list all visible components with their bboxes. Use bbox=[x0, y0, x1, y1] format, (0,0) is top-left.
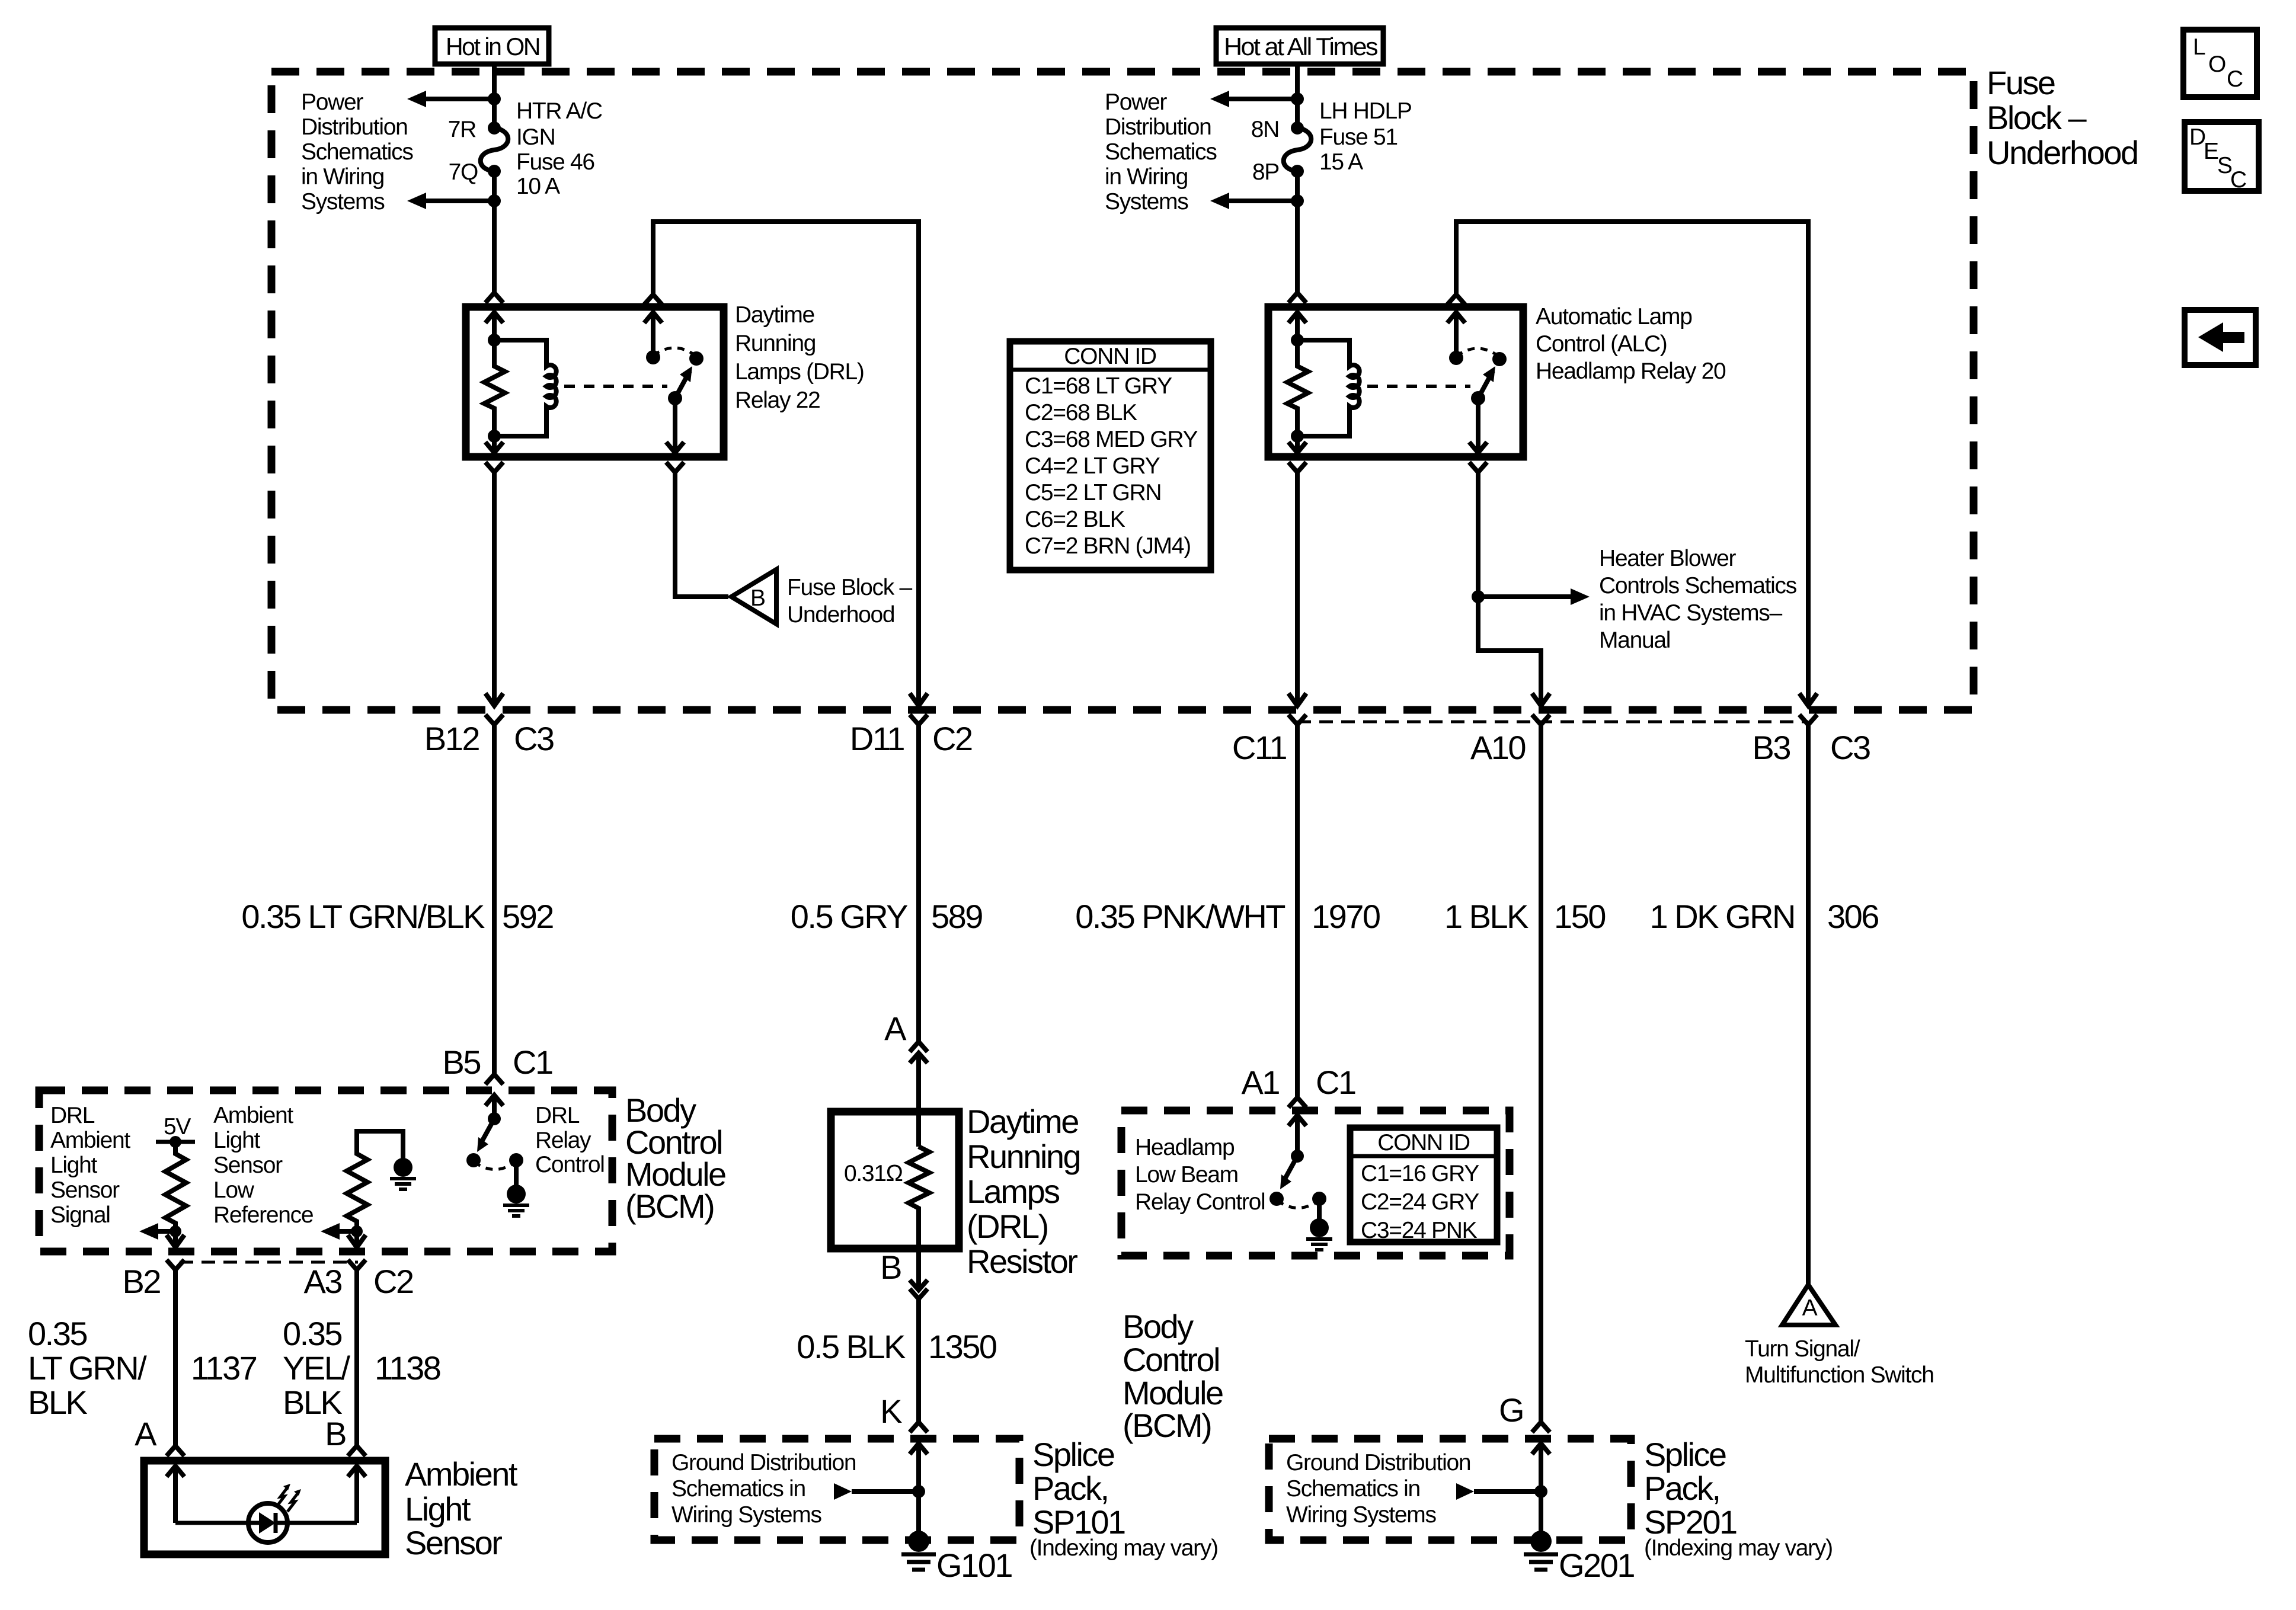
svg-text:Running: Running bbox=[735, 331, 816, 356]
label: Ambient Light Sensor Low Reference bbox=[213, 1103, 313, 1228]
svg-text:in Wiring: in Wiring bbox=[301, 164, 384, 190]
svg-text:in Wiring: in Wiring bbox=[1105, 164, 1188, 190]
svg-text:Manual: Manual bbox=[1599, 628, 1670, 653]
svg-text:7R: 7R bbox=[448, 117, 476, 142]
svg-text:Hot at All Times: Hot at All Times bbox=[1224, 33, 1378, 60]
svg-text:G: G bbox=[1499, 1391, 1523, 1429]
svg-text:C2=68 BLK: C2=68 BLK bbox=[1025, 400, 1137, 425]
svg-text:0.5 GRY: 0.5 GRY bbox=[791, 898, 908, 935]
power label box "Hot in ON" bbox=[435, 28, 549, 64]
connector chevron below relay22 switch pin bbox=[666, 462, 684, 472]
in-line connector at A (double chevron) bbox=[910, 1042, 928, 1052]
svg-text:Control: Control bbox=[1123, 1341, 1219, 1378]
svg-text:1350: 1350 bbox=[928, 1328, 996, 1365]
relay20 coil pin arrow (top) bbox=[1295, 312, 1300, 340]
svg-text:C1=16 GRY: C1=16 GRY bbox=[1361, 1161, 1479, 1186]
label: Fuse Block - Underhood (ref) bbox=[787, 575, 912, 628]
relay20 switch throw contact (NO) bbox=[1492, 352, 1507, 366]
relay22 switch pin arrow (bottom) bbox=[673, 398, 677, 452]
ground G201 bbox=[1530, 1531, 1552, 1552]
label: Headlamp Low Beam Relay Control bbox=[1135, 1135, 1265, 1215]
arrow out of fuse block at B12 bbox=[485, 693, 503, 706]
DRL resistor element bbox=[909, 1147, 929, 1249]
svg-text:LH HDLP: LH HDLP bbox=[1319, 98, 1412, 124]
wire D11 column down to A connector bbox=[916, 725, 921, 1042]
relay20 coil bottom node bbox=[1291, 430, 1304, 443]
wire jog to A10 bbox=[1478, 597, 1541, 706]
connector chevron below boundary at A10 bbox=[1532, 715, 1550, 725]
wire down to relay 22 bbox=[492, 201, 497, 293]
svg-text:A: A bbox=[135, 1415, 157, 1452]
svg-text:Wiring Systems: Wiring Systems bbox=[1286, 1502, 1436, 1528]
relay20 coil top node bbox=[1291, 334, 1304, 347]
svg-text:Pack,: Pack, bbox=[1644, 1470, 1720, 1507]
svg-text:0.35: 0.35 bbox=[28, 1315, 87, 1352]
relay22 coil bottom node bbox=[488, 430, 501, 443]
relay20 switch pivot bbox=[1471, 391, 1485, 405]
LOC box bbox=[2183, 30, 2257, 97]
B ref triangle (Fuse Block - Underhood) bbox=[731, 569, 776, 624]
label: Body Control Module (BCM) left bbox=[625, 1092, 725, 1225]
svg-text:Heater Blower: Heater Blower bbox=[1599, 546, 1737, 571]
ground G101 bbox=[908, 1531, 929, 1552]
svg-text:C4=2 LT GRY: C4=2 LT GRY bbox=[1025, 453, 1160, 479]
text: Heater Blower Controls Schematics in HVAC Systems-Manual bbox=[1599, 546, 1797, 653]
BCM pin arrow at B5 bbox=[492, 1094, 497, 1119]
label: Daytime Running Lamps (DRL) Resistor bbox=[967, 1103, 1080, 1280]
svg-text:0.35: 0.35 bbox=[283, 1315, 341, 1352]
sensor pin arrow B bbox=[354, 1465, 359, 1523]
relay22 coil-switch dashed link bbox=[564, 385, 667, 388]
headlamp low beam contact (right) bbox=[1312, 1192, 1326, 1206]
svg-text:IGN: IGN bbox=[516, 124, 555, 150]
junction node (top right) bbox=[1291, 92, 1304, 105]
svg-text:Underhood: Underhood bbox=[1987, 134, 2138, 171]
label: Ambient Light Sensor bbox=[405, 1455, 518, 1561]
fuse F51 terminal 8P bbox=[1291, 165, 1304, 178]
svg-text:Ground Distribution: Ground Distribution bbox=[671, 1450, 856, 1475]
svg-text:C1: C1 bbox=[513, 1044, 552, 1081]
connector chevron above relay22 switch feed bbox=[644, 295, 662, 305]
label: DRL Ambient Light Sensor Signal bbox=[50, 1103, 130, 1228]
connector chevron below BCM at A3 bbox=[348, 1260, 366, 1270]
svg-text:Sensor: Sensor bbox=[405, 1524, 502, 1561]
DRL relay control switch pivot bbox=[488, 1112, 501, 1125]
wire: arrow from Ground Distribution ref (SP201) bbox=[1474, 1489, 1541, 1494]
svg-text:Block –: Block – bbox=[1987, 99, 2087, 136]
wire A connector into resistor bbox=[916, 1053, 921, 1147]
wire spec: 0.35 YEL/ BLK bbox=[283, 1315, 350, 1421]
label: Fuse Block - Underhood (top right) bbox=[1987, 64, 2138, 171]
svg-text:Body: Body bbox=[1123, 1308, 1194, 1345]
arrow out of fuse block at D11 bbox=[910, 693, 928, 706]
svg-text:A10: A10 bbox=[1470, 729, 1525, 766]
thin dashed connector line C11-B3 bbox=[1297, 721, 1808, 724]
relay22 switch throw contact (NC) bbox=[646, 350, 660, 364]
svg-text:B: B bbox=[880, 1249, 901, 1286]
relay20 coil winding bbox=[1297, 340, 1360, 436]
text: Ground Distribution Schematics in Wiring Systems (SP101) bbox=[671, 1450, 856, 1528]
connector chevron below boundary at C11 bbox=[1288, 715, 1306, 725]
svg-text:B3: B3 bbox=[1753, 729, 1790, 766]
svg-text:C5=2 LT GRN: C5=2 LT GRN bbox=[1025, 480, 1161, 505]
wire spec: 0.35 LT GRN/ BLK bbox=[28, 1315, 147, 1421]
svg-text:C6=2 BLK: C6=2 BLK bbox=[1025, 507, 1125, 532]
relay22 coil pin arrow (top) bbox=[492, 312, 497, 340]
BCM dashed box bbox=[39, 1090, 612, 1251]
svg-text:B2: B2 bbox=[123, 1263, 161, 1300]
connector chevron into relay 20 left pin bbox=[1288, 293, 1306, 303]
svg-text:1 DK GRN: 1 DK GRN bbox=[1650, 898, 1795, 935]
wire relay22 switch common to B ref triangle bbox=[675, 472, 728, 597]
svg-text:Schematics: Schematics bbox=[301, 139, 413, 165]
DRL relay control contact (left) bbox=[466, 1153, 481, 1167]
fuse F46 element bbox=[481, 128, 509, 171]
svg-text:Underhood: Underhood bbox=[787, 602, 894, 628]
svg-text:1 BLK: 1 BLK bbox=[1444, 898, 1528, 935]
svg-text:Fuse Block –: Fuse Block – bbox=[787, 575, 912, 600]
wire: Hot at All Times to fuse 51 bbox=[1295, 64, 1300, 128]
svg-text:10 A: 10 A bbox=[516, 174, 560, 199]
headlamp low beam switch arm bbox=[1284, 1156, 1297, 1181]
connector chevron into sensor at A bbox=[167, 1446, 184, 1456]
label: Splice Pack, SP101 bbox=[1029, 1436, 1218, 1561]
relay22 switch throw contact (NO) bbox=[689, 351, 703, 366]
svg-text:1137: 1137 bbox=[191, 1349, 257, 1387]
wire: arrow from Ground Distribution ref bbox=[852, 1489, 919, 1494]
relay20 switch throw contact (NC) bbox=[1449, 351, 1463, 365]
wire to G201 bbox=[1539, 1491, 1543, 1535]
svg-text:(BCM): (BCM) bbox=[1123, 1407, 1211, 1444]
wire: arrow to Heater Blower ref bbox=[1478, 594, 1572, 599]
svg-text:7Q: 7Q bbox=[449, 159, 478, 185]
svg-text:Relay 22: Relay 22 bbox=[735, 388, 820, 413]
label: HTR A/C IGN Fuse 46 10 A bbox=[516, 98, 602, 199]
svg-text:LT GRN/: LT GRN/ bbox=[28, 1349, 147, 1387]
wire C11 column down to A1/C1 bbox=[1295, 725, 1300, 1097]
svg-text:Relay Control: Relay Control bbox=[1135, 1189, 1265, 1215]
svg-text:Fuse 46: Fuse 46 bbox=[516, 149, 594, 175]
DRL relay control dashed travel arc bbox=[474, 1162, 516, 1170]
label: Splice Pack, SP201 bbox=[1644, 1436, 1833, 1561]
connector chevron below boundary at B3/C3 bbox=[1799, 715, 1817, 725]
BCM2 dashed box bbox=[1121, 1110, 1510, 1256]
ground stem inside BCM bbox=[514, 1160, 519, 1185]
headlamp low beam switch pivot bbox=[1291, 1150, 1304, 1163]
relay22 coil top node bbox=[488, 334, 501, 347]
wire A10 column down to G bbox=[1539, 725, 1543, 1422]
svg-text:15 A: 15 A bbox=[1319, 149, 1363, 175]
ground symbol (DRL relay control) bbox=[507, 1185, 526, 1204]
relay22 switch pin arrow (top) bbox=[651, 312, 655, 357]
svg-text:Schematics: Schematics bbox=[1105, 139, 1217, 165]
relay22 coil winding bbox=[494, 340, 557, 436]
junction node low reference bbox=[351, 1225, 363, 1237]
text: Ground Distribution Schematics in Wiring Systems (SP201) bbox=[1286, 1450, 1470, 1528]
svg-text:C3=68 MED GRY: C3=68 MED GRY bbox=[1025, 427, 1198, 452]
connector chevron into BCM at B5/C1 bbox=[485, 1074, 503, 1084]
junction node heater blower branch bbox=[1472, 590, 1485, 603]
wire B2 to sensor bbox=[173, 1270, 178, 1446]
connector chevron into sensor at B bbox=[348, 1446, 366, 1456]
svg-text:CONN ID: CONN ID bbox=[1377, 1130, 1470, 1156]
svg-text:DRL: DRL bbox=[50, 1103, 95, 1128]
relay20 switch pin arrow (top) bbox=[1454, 312, 1459, 358]
resistor (low reference) with ground hook bbox=[347, 1131, 403, 1231]
SP101 junction node bbox=[912, 1485, 925, 1498]
text: Power Distribution Schematics in Wiring Systems (right) bbox=[1105, 89, 1217, 215]
svg-text:Control: Control bbox=[535, 1152, 605, 1177]
svg-text:Headlamp Relay 20: Headlamp Relay 20 bbox=[1536, 359, 1726, 384]
svg-text:E: E bbox=[2204, 139, 2218, 164]
svg-text:C1=68 LT GRY: C1=68 LT GRY bbox=[1025, 373, 1172, 399]
svg-text:Daytime: Daytime bbox=[735, 302, 814, 328]
svg-text:G101: G101 bbox=[936, 1547, 1012, 1584]
svg-text:Ambient: Ambient bbox=[213, 1103, 293, 1128]
svg-text:C11: C11 bbox=[1232, 729, 1286, 766]
svg-text:DRL: DRL bbox=[535, 1103, 580, 1128]
svg-text:C2: C2 bbox=[932, 720, 972, 757]
wire relay20 switch feed from B3 branch bbox=[1456, 222, 1808, 706]
svg-text:8N: 8N bbox=[1251, 117, 1279, 142]
fuse F46 terminal 7Q bbox=[488, 165, 501, 178]
relay22 switch pivot bbox=[668, 391, 682, 405]
wire below fuse 51 bbox=[1295, 171, 1300, 201]
relay22 switch arm bbox=[675, 371, 690, 398]
svg-text:Controls Schematics: Controls Schematics bbox=[1599, 573, 1797, 598]
svg-text:(Indexing may vary): (Indexing may vary) bbox=[1029, 1535, 1218, 1561]
relay20 switch arm bbox=[1478, 371, 1493, 398]
wire below fuse 46 bbox=[492, 171, 497, 201]
svg-text:Light: Light bbox=[213, 1128, 261, 1153]
svg-text:D11: D11 bbox=[850, 720, 904, 757]
SP201 dashed box bbox=[1269, 1439, 1631, 1540]
svg-text:Module: Module bbox=[1123, 1374, 1223, 1411]
svg-text:Sensor: Sensor bbox=[50, 1177, 120, 1203]
label: LH HDLP Fuse 51 15 A bbox=[1319, 98, 1412, 175]
svg-text:5V: 5V bbox=[164, 1114, 191, 1140]
svg-text:C: C bbox=[2227, 66, 2243, 92]
svg-text:150: 150 bbox=[1554, 898, 1605, 935]
wire relay22 coil to B12 crossing bbox=[492, 472, 497, 706]
svg-text:Sensor: Sensor bbox=[213, 1153, 283, 1178]
svg-text:YEL/: YEL/ bbox=[283, 1349, 350, 1387]
connector chevron into SP101 at K bbox=[910, 1422, 928, 1432]
relay22 resistor bbox=[484, 340, 505, 436]
svg-text:Lamps (DRL): Lamps (DRL) bbox=[735, 359, 864, 385]
CONN ID table 2 bbox=[1350, 1128, 1497, 1243]
DRL relay control switch arm bbox=[481, 1119, 494, 1144]
svg-text:Reference: Reference bbox=[213, 1202, 313, 1228]
connector chevron below relay22 coil pin bbox=[485, 462, 503, 472]
connector chevron below relay20 coil pin bbox=[1288, 462, 1306, 472]
DRL relay control contact (right) bbox=[509, 1153, 523, 1167]
ground symbol (headlamp low beam) bbox=[1310, 1218, 1329, 1237]
svg-text:K: K bbox=[880, 1393, 902, 1430]
svg-text:Power: Power bbox=[1105, 89, 1167, 115]
wire relay20 coil to C11 crossing bbox=[1295, 472, 1300, 706]
wire: arrow to Power Distribution ref (upper right) bbox=[1228, 97, 1297, 101]
svg-text:0.31Ω: 0.31Ω bbox=[844, 1161, 903, 1186]
wire: arrow to Power Distribution ref (upper) bbox=[425, 97, 494, 101]
relay20 switch pin arrow (bottom) bbox=[1476, 398, 1480, 452]
svg-text:O: O bbox=[2208, 52, 2225, 77]
A ref triangle (turn signal) bbox=[1782, 1285, 1835, 1325]
svg-text:Turn Signal/: Turn Signal/ bbox=[1745, 1336, 1860, 1362]
SP201 junction node bbox=[1534, 1485, 1547, 1498]
svg-text:Daytime: Daytime bbox=[967, 1103, 1078, 1140]
svg-text:BLK: BLK bbox=[28, 1384, 87, 1421]
svg-text:Ground Distribution: Ground Distribution bbox=[1286, 1450, 1470, 1475]
svg-text:C7=2 BRN (JM4): C7=2 BRN (JM4) bbox=[1025, 533, 1191, 559]
DRL resistor box bbox=[831, 1112, 959, 1249]
svg-text:B5: B5 bbox=[443, 1044, 481, 1081]
svg-text:Automatic Lamp: Automatic Lamp bbox=[1536, 304, 1692, 329]
wire to G101 bbox=[916, 1491, 921, 1535]
ground stem inside BCM2 bbox=[1317, 1199, 1322, 1219]
svg-text:Running: Running bbox=[967, 1138, 1080, 1175]
svg-text:1138: 1138 bbox=[375, 1349, 440, 1387]
arrow out of BCM at B2 bbox=[173, 1231, 178, 1247]
svg-text:L: L bbox=[2193, 34, 2205, 60]
svg-text:Schematics in: Schematics in bbox=[1286, 1476, 1420, 1502]
fuse F51 element bbox=[1284, 128, 1312, 171]
power label box "Hot at All Times" bbox=[1216, 28, 1383, 64]
svg-text:A: A bbox=[884, 1010, 907, 1047]
arrow out of fuse block at A10 bbox=[1532, 693, 1550, 706]
wire B12 column down to BCM bbox=[492, 725, 497, 1074]
svg-text:C2: C2 bbox=[373, 1263, 413, 1300]
SP201 pin arrow bbox=[1539, 1443, 1543, 1491]
relay20 switch dashed travel arc bbox=[1456, 348, 1500, 357]
thin dashed connector line B2-A3 bbox=[180, 1261, 358, 1264]
arrow out of fuse block at C11 bbox=[1288, 693, 1306, 706]
arrow out of fuse block at B3 bbox=[1799, 693, 1817, 706]
SP101 dashed box bbox=[654, 1439, 1019, 1540]
svg-text:Light: Light bbox=[405, 1490, 471, 1528]
svg-text:Systems: Systems bbox=[1105, 189, 1188, 215]
connector chevron below relay20 switch pin bbox=[1469, 462, 1487, 472]
wire resistor to B connector bbox=[916, 1249, 921, 1290]
svg-text:B12: B12 bbox=[424, 720, 479, 757]
photodiode element bbox=[249, 1521, 259, 1525]
svg-text:HTR A/C: HTR A/C bbox=[516, 98, 602, 124]
svg-text:C3=24 PNK: C3=24 PNK bbox=[1361, 1218, 1478, 1243]
svg-text:(BCM): (BCM) bbox=[625, 1188, 714, 1225]
svg-text:C3: C3 bbox=[514, 720, 554, 757]
headlamp low beam dashed travel arc bbox=[1277, 1201, 1319, 1208]
svg-text:Low Beam: Low Beam bbox=[1135, 1162, 1238, 1188]
wire: arrow to Power Distribution ref (lower) bbox=[425, 199, 494, 203]
svg-text:Schematics in: Schematics in bbox=[671, 1476, 805, 1502]
BCM2 pin arrow at A1 bbox=[1295, 1115, 1300, 1156]
svg-text:Distribution: Distribution bbox=[1105, 114, 1211, 140]
svg-text:C3: C3 bbox=[1830, 729, 1870, 766]
svg-text:(Indexing may vary): (Indexing may vary) bbox=[1644, 1535, 1833, 1561]
in-line connector at B (double chevron) bbox=[910, 1280, 928, 1290]
sensor internal wire bbox=[175, 1521, 249, 1525]
svg-text:592: 592 bbox=[502, 898, 553, 935]
nav arrow box bbox=[2185, 310, 2256, 365]
svg-text:Distribution: Distribution bbox=[301, 114, 407, 140]
svg-text:Hot in ON: Hot in ON bbox=[446, 33, 539, 60]
svg-text:D: D bbox=[2189, 124, 2205, 150]
SP101 pin arrow bbox=[916, 1443, 921, 1491]
headlamp low beam contact (left) bbox=[1269, 1192, 1284, 1206]
wire: arrow to Power Distribution ref (lower right) bbox=[1228, 199, 1297, 203]
svg-text:589: 589 bbox=[931, 898, 982, 935]
relay22 coil pin arrow (bottom) bbox=[492, 436, 497, 452]
relay20 coil pin arrow (bottom) bbox=[1295, 436, 1300, 452]
connector chevron below boundary at D11/C2 bbox=[910, 715, 928, 725]
resistor (ambient light sensor signal pull-up) bbox=[165, 1142, 186, 1231]
label: Daytime Running Lamps (DRL) Relay 22 bbox=[735, 302, 864, 413]
svg-text:Splice: Splice bbox=[1032, 1436, 1114, 1473]
svg-text:B: B bbox=[325, 1415, 346, 1452]
relay20 resistor bbox=[1287, 340, 1308, 436]
text: Power Distribution Schematics in Wiring Systems (left) bbox=[301, 89, 413, 215]
svg-text:0.35 PNK/WHT: 0.35 PNK/WHT bbox=[1075, 898, 1285, 935]
svg-text:A1: A1 bbox=[1242, 1064, 1280, 1101]
svg-text:Fuse 51: Fuse 51 bbox=[1319, 124, 1398, 150]
wire down to relay 20 bbox=[1295, 201, 1300, 293]
sensor pin arrow A bbox=[173, 1465, 178, 1523]
svg-text:8P: 8P bbox=[1252, 159, 1279, 185]
svg-text:C1: C1 bbox=[1316, 1064, 1355, 1101]
svg-text:C: C bbox=[2230, 167, 2246, 193]
relay K22 box bbox=[466, 307, 724, 457]
svg-text:C2=24 GRY: C2=24 GRY bbox=[1361, 1189, 1479, 1215]
svg-text:G201: G201 bbox=[1559, 1547, 1634, 1584]
svg-text:Headlamp: Headlamp bbox=[1135, 1135, 1235, 1160]
connector chevron into relay 22 left pin bbox=[485, 293, 503, 303]
svg-text:Pack,: Pack, bbox=[1032, 1470, 1108, 1507]
label: Turn Signal/ Multifunction Switch bbox=[1745, 1336, 1934, 1388]
svg-text:Light: Light bbox=[50, 1153, 98, 1178]
connector chevron into BCM2 at A1/C1 bbox=[1288, 1097, 1306, 1108]
relay K20 box bbox=[1268, 307, 1523, 457]
wire: arrow to Signal label bbox=[157, 1229, 175, 1234]
ambient light sensor box bbox=[144, 1461, 385, 1554]
ground symbol (low reference) bbox=[394, 1158, 412, 1177]
svg-text:CONN ID: CONN ID bbox=[1064, 344, 1156, 369]
svg-text:Relay: Relay bbox=[535, 1128, 591, 1153]
svg-text:Resistor: Resistor bbox=[967, 1243, 1077, 1280]
connector chevron below boundary at B12/C3 bbox=[485, 715, 503, 725]
wire relay22 switch feed from D11 branch bbox=[653, 222, 919, 706]
label: Automatic Lamp Control (ALC) Headlamp Relay 20 bbox=[1536, 304, 1726, 384]
svg-text:Power: Power bbox=[301, 89, 363, 115]
fuse F46 terminal 7R bbox=[488, 121, 501, 135]
connector chevron above relay20 switch feed bbox=[1447, 295, 1465, 305]
wire B3 column down to A ref triangle bbox=[1806, 725, 1811, 1286]
svg-text:in HVAC Systems–: in HVAC Systems– bbox=[1599, 600, 1783, 626]
svg-text:Ambient: Ambient bbox=[50, 1128, 130, 1153]
svg-text:Splice: Splice bbox=[1644, 1436, 1726, 1473]
svg-text:0.35 LT GRN/BLK: 0.35 LT GRN/BLK bbox=[241, 898, 485, 935]
svg-text:Ambient: Ambient bbox=[405, 1455, 518, 1493]
fuse F51 terminal 8N bbox=[1291, 121, 1304, 135]
svg-text:306: 306 bbox=[1827, 898, 1878, 935]
svg-text:Systems: Systems bbox=[301, 189, 385, 215]
svg-text:(DRL): (DRL) bbox=[967, 1208, 1048, 1245]
svg-text:Multifunction Switch: Multifunction Switch bbox=[1745, 1362, 1934, 1388]
svg-text:Wiring Systems: Wiring Systems bbox=[671, 1502, 821, 1528]
wire: Hot in ON to fuse 46 bbox=[492, 64, 497, 128]
junction node signal bbox=[170, 1225, 181, 1237]
5V node bbox=[170, 1136, 181, 1148]
svg-text:Low: Low bbox=[213, 1177, 255, 1203]
